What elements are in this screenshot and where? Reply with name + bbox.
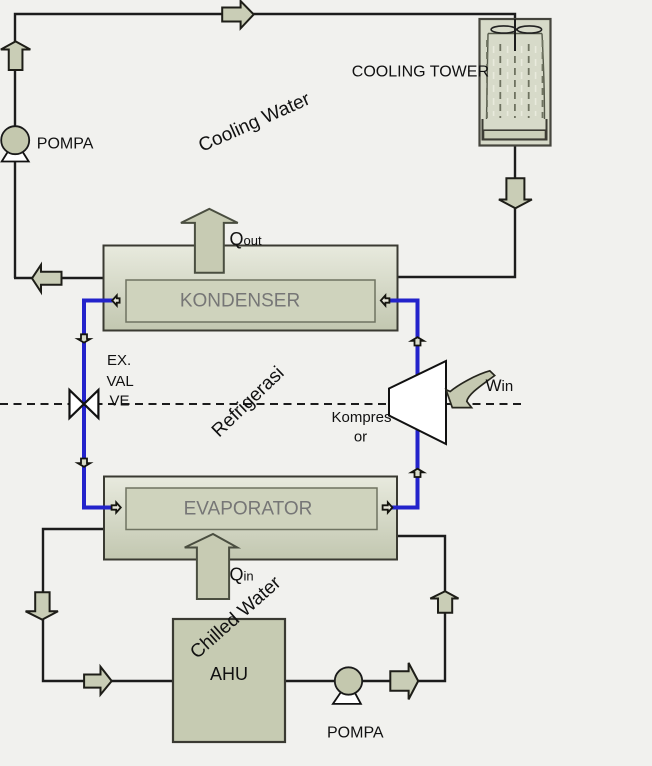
svg-text:VAL: VAL <box>107 373 134 390</box>
svg-text:POMPA: POMPA <box>327 725 384 742</box>
svg-text:or: or <box>354 429 367 446</box>
svg-text:POMPA: POMPA <box>37 136 94 153</box>
svg-text:COOLING TOWER: COOLING TOWER <box>352 64 489 81</box>
svg-text:AHU: AHU <box>210 664 248 684</box>
svg-text:Kompres: Kompres <box>331 409 391 426</box>
svg-text:Win: Win <box>486 376 514 395</box>
svg-text:VE: VE <box>110 393 130 410</box>
svg-text:EVAPORATOR: EVAPORATOR <box>184 499 313 520</box>
svg-text:EX.: EX. <box>107 352 131 369</box>
svg-text:KONDENSER: KONDENSER <box>180 291 300 312</box>
